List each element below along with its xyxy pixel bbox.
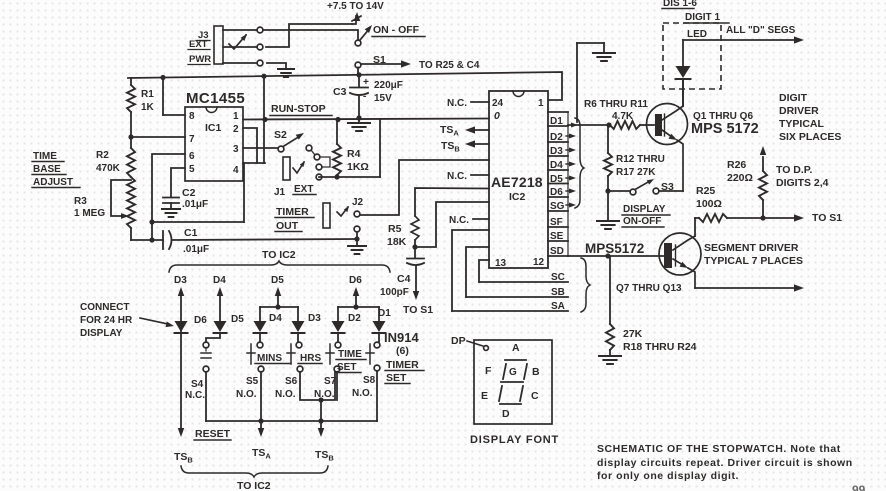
svg-text:N.C.: N.C. [447,171,467,182]
svg-text:ADJUST: ADJUST [33,177,73,188]
svg-text:TYPICAL: TYPICAL [779,118,825,130]
svg-text:N.O.: N.O. [236,389,257,400]
svg-text:C4: C4 [397,273,411,285]
svg-text:18K: 18K [387,236,407,248]
svg-text:F: F [485,365,492,377]
svg-text:R12 THRU: R12 THRU [616,154,665,165]
svg-text:TIME: TIME [33,151,57,162]
svg-text:SET: SET [386,372,407,384]
svg-text:RESET: RESET [195,428,231,440]
svg-text:+7.5 TO 14V: +7.5 TO 14V [327,1,384,12]
svg-text:IN914: IN914 [384,330,419,345]
svg-text:ON-OFF: ON-OFF [623,216,661,227]
svg-text:27K: 27K [623,328,643,340]
svg-text:1KΩ: 1KΩ [347,161,369,173]
svg-text:99: 99 [852,483,866,491]
svg-text:R1: R1 [141,89,154,100]
svg-text:220Ω: 220Ω [727,172,753,184]
svg-text:ON - OFF: ON - OFF [373,24,420,36]
svg-text:G: G [509,367,517,378]
svg-text:-: - [363,91,366,102]
svg-text:220μF: 220μF [374,80,403,91]
svg-text:100pF: 100pF [380,287,409,298]
svg-text:2: 2 [233,124,239,135]
svg-text:8: 8 [189,111,195,122]
svg-text:S6: S6 [285,376,298,387]
svg-text:Q7 THRU Q13: Q7 THRU Q13 [616,283,682,294]
svg-text:C3: C3 [333,86,347,98]
svg-text:D: D [502,408,510,420]
svg-text:24: 24 [492,98,504,109]
svg-text:TSB: TSB [174,451,193,465]
svg-text:S5: S5 [246,376,259,387]
svg-text:+: + [363,77,369,88]
svg-text:R17 27K: R17 27K [616,167,656,178]
svg-text:AE7218: AE7218 [491,174,543,190]
svg-text:B: B [532,366,540,378]
svg-text:S4: S4 [191,379,204,390]
svg-text:.01μF: .01μF [182,199,208,210]
svg-text:S7: S7 [324,376,337,387]
svg-text:C1: C1 [184,227,198,239]
svg-text:D6: D6 [194,315,207,326]
svg-text:R6 THRU R11: R6 THRU R11 [584,99,648,110]
svg-text:R18 THRU R24: R18 THRU R24 [623,341,697,353]
svg-text:LED: LED [687,29,707,40]
svg-text:for only one display digit.: for only one display digit. [597,470,739,482]
svg-text:TIMER: TIMER [386,359,419,371]
svg-text:TSA: TSA [252,447,271,461]
svg-text:N.O.: N.O. [352,388,373,399]
svg-text:FOR 24 HR: FOR 24 HR [80,315,133,326]
svg-text:ALL "D" SEGS: ALL "D" SEGS [726,25,796,36]
svg-text:DIGITS 2,4: DIGITS 2,4 [776,177,829,189]
svg-text:DISPLAY: DISPLAY [623,204,666,215]
svg-text:TO D.P.: TO D.P. [776,164,812,176]
svg-text:BASE: BASE [33,164,61,175]
svg-text:TIMER: TIMER [276,206,309,218]
svg-text:TIME: TIME [338,349,362,360]
svg-text:13: 13 [495,258,507,269]
svg-text:100Ω: 100Ω [696,198,722,210]
svg-text:DISPLAY: DISPLAY [80,328,123,339]
svg-text:D3: D3 [174,275,187,286]
svg-text:SEGMENT DRIVER: SEGMENT DRIVER [704,242,799,254]
svg-text:4.7K: 4.7K [612,111,634,122]
svg-text:N.C.: N.C. [449,215,469,226]
svg-text:C: C [531,390,539,402]
svg-text:CONNECT: CONNECT [80,302,129,313]
svg-text:S3: S3 [661,181,674,193]
svg-text:display circuits repeat. Drive: display circuits repeat. Driver circuit … [597,457,853,469]
svg-text:.01μF: .01μF [183,244,209,255]
svg-text:SCHEMATIC OF THE STOPWATCH. No: SCHEMATIC OF THE STOPWATCH. Note that [597,443,841,455]
svg-text:(6): (6) [396,345,409,357]
svg-text:OUT: OUT [276,220,299,232]
svg-text:SIX PLACES: SIX PLACES [779,131,841,143]
svg-text:1K: 1K [141,102,155,113]
svg-text:1: 1 [233,111,239,122]
svg-text:R3: R3 [74,196,87,207]
svg-text:TO IC2: TO IC2 [262,249,296,261]
svg-text:1: 1 [538,98,544,109]
svg-text:D1: D1 [378,308,391,319]
svg-text:R4: R4 [347,148,361,160]
svg-text:R26: R26 [727,159,746,171]
svg-text:5: 5 [189,164,195,175]
svg-text:R2: R2 [96,150,109,161]
svg-text:IC2: IC2 [509,191,526,203]
svg-text:N.C.: N.C. [447,98,467,109]
svg-text:N.O.: N.O. [275,389,296,400]
svg-text:TSA: TSA [440,124,459,138]
svg-text:E: E [481,390,488,402]
svg-text:DISPLAY FONT: DISPLAY FONT [470,434,559,446]
svg-text:6: 6 [189,151,195,162]
svg-text:R5: R5 [388,223,402,235]
svg-text:IC1: IC1 [205,122,222,134]
svg-text:470K: 470K [96,163,121,174]
svg-text:TYPICAL 7 PLACES: TYPICAL 7 PLACES [704,255,803,267]
svg-text:EXT: EXT [189,39,208,50]
svg-text:N.O.: N.O. [314,389,335,400]
svg-text:D3: D3 [308,313,321,324]
svg-text:3: 3 [233,144,239,155]
svg-text:TSB: TSB [315,449,334,463]
svg-text:S8: S8 [363,375,376,386]
svg-text:S2: S2 [274,129,287,141]
svg-text:RUN-STOP: RUN-STOP [271,103,326,115]
svg-text:DIGIT 1: DIGIT 1 [685,12,720,23]
svg-text:C2: C2 [182,187,196,199]
svg-text:DIS 1-6: DIS 1-6 [663,0,697,9]
svg-text:D5: D5 [271,275,284,286]
svg-text:R25: R25 [696,185,715,197]
svg-text:1 MEG: 1 MEG [74,208,105,219]
svg-text:0: 0 [494,110,500,122]
svg-text:EXT: EXT [294,184,313,195]
svg-text:D4: D4 [269,313,282,324]
svg-text:DRIVER: DRIVER [779,105,819,117]
svg-text:TO S1: TO S1 [812,212,842,224]
svg-text:D4: D4 [213,275,226,286]
svg-text:TO IC2: TO IC2 [237,480,271,491]
svg-text:TO S1: TO S1 [403,304,433,316]
svg-text:TO R25 & C4: TO R25 & C4 [419,60,480,71]
svg-text:J1: J1 [274,187,286,198]
svg-text:15V: 15V [374,93,392,104]
svg-text:MPS 5172: MPS 5172 [691,121,759,137]
svg-text:D5: D5 [231,314,244,325]
svg-text:SET: SET [337,362,356,373]
svg-text:PWR: PWR [189,54,211,65]
svg-text:D2: D2 [348,313,361,324]
svg-text:DP: DP [451,335,466,347]
svg-text:DIGIT: DIGIT [779,92,808,104]
svg-text:HRS: HRS [300,353,321,364]
svg-text:7: 7 [189,134,195,145]
svg-text:MINS: MINS [257,353,282,364]
svg-text:MPS5172: MPS5172 [585,241,644,256]
svg-text:D6: D6 [349,275,362,286]
svg-text:J2: J2 [352,197,364,208]
svg-text:MC1455: MC1455 [186,90,245,107]
svg-text:N.C.: N.C. [185,390,205,401]
svg-text:4: 4 [233,165,239,176]
svg-text:12: 12 [533,257,545,268]
svg-text:A: A [512,342,520,354]
svg-text:TSB: TSB [441,140,460,154]
